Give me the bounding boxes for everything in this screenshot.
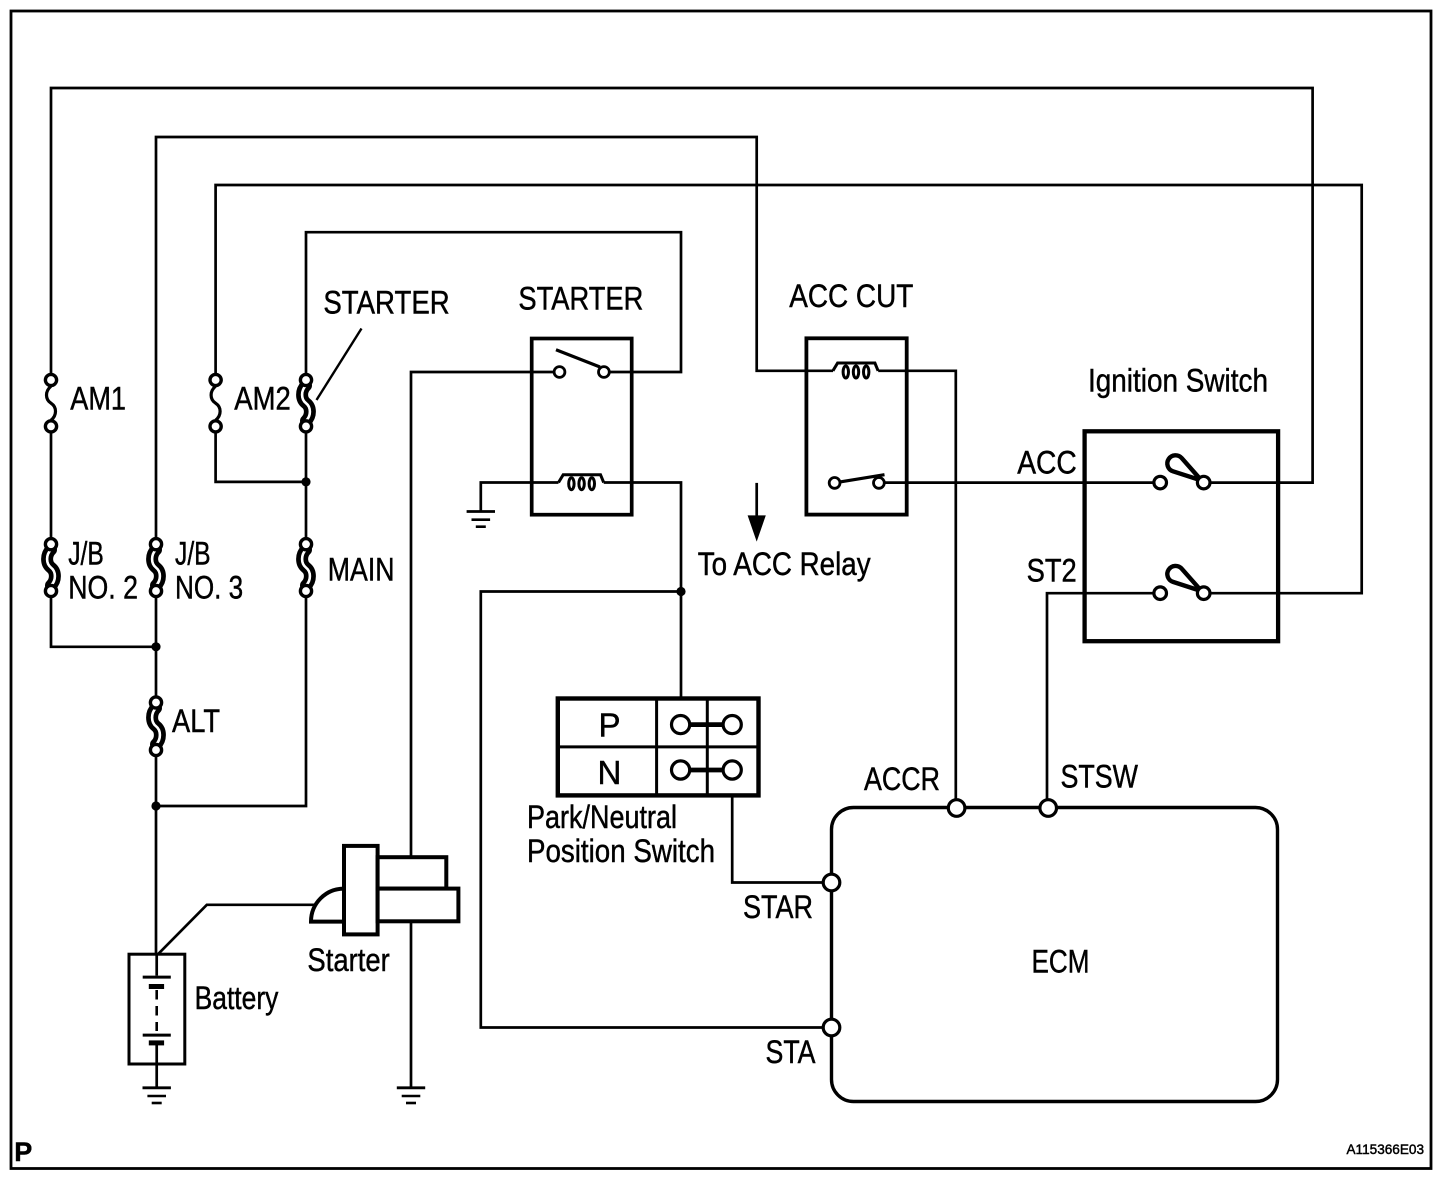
svg-text:Ignition Switch: Ignition Switch [1088,363,1268,399]
svg-text:A115366E03: A115366E03 [1347,1142,1425,1157]
svg-text:J/B: J/B [68,536,104,572]
svg-text:P: P [599,707,621,744]
svg-text:STARTER: STARTER [518,281,643,317]
svg-text:Starter: Starter [307,942,390,978]
svg-text:NO. 2: NO. 2 [68,570,138,606]
svg-text:ACCR: ACCR [864,761,940,797]
svg-text:STARTER: STARTER [323,285,449,321]
svg-text:STSW: STSW [1061,759,1139,795]
svg-text:Battery: Battery [195,980,279,1016]
svg-text:ALT: ALT [172,703,220,739]
svg-text:NO. 3: NO. 3 [175,570,243,606]
svg-text:ACC: ACC [1017,445,1076,481]
svg-text:ACC CUT: ACC CUT [789,278,913,314]
svg-text:ST2: ST2 [1027,553,1077,589]
svg-text:AM1: AM1 [70,381,126,417]
svg-text:MAIN: MAIN [328,552,395,588]
svg-text:STA: STA [766,1034,817,1070]
svg-text:STAR: STAR [743,889,813,925]
svg-text:N: N [598,754,622,791]
svg-text:P: P [14,1137,32,1167]
svg-text:Park/Neutral: Park/Neutral [527,799,677,835]
svg-text:AM2: AM2 [234,381,290,417]
svg-text:ECM: ECM [1032,944,1090,980]
svg-text:To ACC Relay: To ACC Relay [698,546,871,582]
svg-text:Position Switch: Position Switch [527,833,715,869]
svg-text:J/B: J/B [175,536,211,572]
